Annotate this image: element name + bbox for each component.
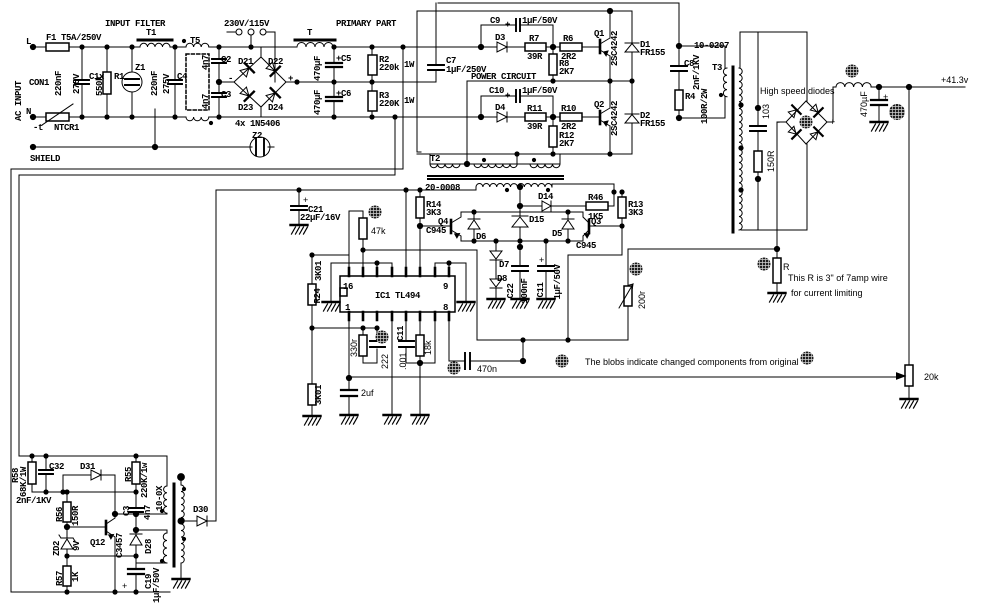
transformer T2 primary winding 3: [530, 164, 560, 168]
svg-text:200r: 200r: [637, 291, 647, 309]
svg-text:+C5: +C5: [336, 54, 351, 64]
capacitor C22: [519, 241, 521, 297]
svg-text:R6: R6: [563, 34, 573, 44]
svg-text:T1: T1: [146, 28, 157, 38]
diode D1: [625, 11, 639, 81]
wire emitter rail: [461, 240, 583, 242]
svg-text:470µF: 470µF: [313, 56, 323, 81]
svg-text:R24: R24: [313, 288, 323, 304]
svg-text:T5: T5: [190, 36, 200, 46]
svg-text:D14: D14: [538, 192, 554, 202]
svg-text:220K: 220K: [379, 99, 400, 109]
svg-text:D28: D28: [144, 539, 154, 554]
svg-text:D7: D7: [499, 260, 509, 270]
svg-text:.001: .001: [398, 352, 408, 370]
svg-text:C9: C9: [490, 16, 500, 26]
svg-text:1µF/50V: 1µF/50V: [553, 264, 563, 300]
resistor R11: [525, 113, 546, 121]
svg-text:Q1: Q1: [594, 29, 605, 39]
svg-text:230V/115V: 230V/115V: [224, 19, 270, 29]
svg-text:1µF/50V: 1µF/50V: [522, 86, 558, 96]
diode D28: [130, 514, 142, 556]
svg-text:4n7: 4n7: [143, 505, 153, 520]
diode D8: [495, 270, 497, 297]
wire D30 riser: [215, 190, 217, 521]
capacitor C1: [81, 47, 83, 117]
inductor T1: [140, 43, 170, 47]
capacitor C3 aux: [135, 492, 137, 514]
wire T2 secondary right: [552, 184, 614, 192]
resistor R46: [586, 202, 608, 210]
svg-text:3K3: 3K3: [628, 208, 643, 218]
transformer T primary: [297, 43, 333, 48]
capacitor 470n: [449, 320, 523, 361]
transformer T2 secondary winding: [476, 184, 552, 187]
svg-text:2K7: 2K7: [559, 67, 574, 77]
svg-text:39R: 39R: [527, 52, 543, 62]
node taps T3: [738, 102, 743, 192]
resistor R55: [135, 456, 137, 492]
wire shield: [33, 146, 250, 148]
wire mid rail: [286, 81, 436, 83]
zener ZD2: [59, 527, 75, 556]
svg-text:D31: D31: [80, 462, 96, 472]
svg-text:2uf: 2uf: [361, 388, 374, 398]
svg-text:Z1: Z1: [135, 63, 146, 73]
wire pin4 ground drop: [391, 320, 393, 413]
labels input parts: [54, 55, 231, 109]
resistor R13: [621, 192, 623, 226]
svg-text:R7: R7: [529, 34, 539, 44]
wire D31 drop: [114, 475, 116, 514]
resistor R24: [311, 255, 313, 328]
wire: [270, 146, 274, 148]
resistor 3K01 lower: [311, 328, 313, 414]
svg-text:D5: D5: [552, 229, 562, 239]
diode output bridge a: [787, 105, 801, 119]
svg-text:F1 T5A/250V: F1 T5A/250V: [46, 33, 102, 43]
capacitor C7: [435, 3, 437, 82]
diode D21: [239, 63, 254, 78]
resistor R6: [560, 43, 582, 51]
diode D22: [265, 61, 280, 76]
spark gap Z1: [131, 47, 133, 117]
transformer T2 primary winding 2: [474, 164, 517, 168]
svg-text:R11: R11: [527, 104, 543, 114]
svg-text:NTCR1: NTCR1: [54, 123, 80, 133]
svg-text:C11: C11: [536, 282, 546, 298]
diode D14: [542, 201, 551, 211]
svg-text:275V: 275V: [72, 73, 82, 94]
transformer T2 primary winding 1: [430, 164, 460, 168]
svg-text:Q3: Q3: [591, 217, 601, 227]
wire aux bottom rail: [11, 591, 170, 593]
svg-text:18k: 18k: [423, 340, 433, 355]
svg-text:-t: -t: [33, 123, 43, 133]
capacitor C5: [333, 47, 335, 82]
resistor R7: [525, 43, 546, 51]
transformer T2 core: [428, 176, 563, 179]
transformer T3 core: [732, 67, 735, 232]
capacitor C9: [481, 25, 553, 47]
svg-text:275V: 275V: [162, 73, 172, 94]
IC1 bottom pins: [349, 312, 449, 320]
svg-text:1K: 1K: [71, 571, 81, 582]
resistor R14: [419, 190, 421, 226]
capacitor C11: [545, 241, 547, 297]
transformer T5 top winding: [186, 43, 209, 47]
blob output cap: [889, 104, 905, 120]
blob note left: [556, 355, 569, 368]
svg-text:D8: D8: [497, 274, 507, 284]
wire shield stub: [154, 109, 156, 147]
svg-text:D3: D3: [495, 33, 505, 43]
wire vertical to T2 rail: [417, 11, 421, 152]
svg-text:+: +: [505, 91, 510, 101]
svg-text:SHIELD: SHIELD: [30, 154, 61, 164]
diode D23: [239, 86, 254, 101]
svg-text:2nF/1KV: 2nF/1KV: [16, 496, 52, 506]
diode D6: [468, 212, 480, 241]
svg-text:R: R: [783, 262, 790, 272]
svg-text:1µF/50V: 1µF/50V: [522, 16, 558, 26]
resistor R4: [675, 90, 683, 110]
svg-text:470µF: 470µF: [859, 91, 869, 117]
transformer T2 primary stubs: [430, 154, 560, 164]
transformer aux left winding 2: [163, 533, 167, 563]
wire secondary top loop: [740, 32, 807, 126]
svg-text:100R/2W: 100R/2W: [700, 88, 710, 124]
potentiometer 20k: [905, 365, 913, 386]
node SHIELD: [30, 144, 35, 149]
blob note right: [801, 352, 814, 365]
svg-text:Q2: Q2: [594, 100, 604, 110]
capacitor 222: [376, 328, 378, 341]
svg-text:+: +: [505, 20, 510, 30]
wire: [69, 116, 186, 118]
svg-text:C2: C2: [221, 55, 231, 65]
svg-text:C3457: C3457: [115, 533, 125, 558]
diode D24: [265, 88, 280, 103]
resistor R56: [66, 492, 68, 527]
wire mid bus: [467, 80, 632, 82]
switch 230V/115V: [227, 32, 275, 82]
wire 18k node: [406, 320, 435, 413]
transformer aux right winding: [181, 485, 184, 563]
transistor Q12: [105, 521, 108, 534]
wire: [209, 116, 261, 118]
node N terminal: [30, 114, 35, 119]
diode D15: [512, 206, 528, 241]
ground output cap: [871, 116, 888, 131]
resistor R8: [552, 47, 554, 81]
svg-text:R55: R55: [124, 467, 134, 482]
svg-text:1µF/250V: 1µF/250V: [446, 65, 487, 75]
svg-text:9V: 9V: [72, 540, 82, 551]
resistor 330r: [363, 328, 377, 363]
svg-text:R10: R10: [561, 104, 576, 114]
capacitor C6: [333, 82, 335, 117]
diode D5: [562, 212, 574, 241]
capacitor C19: [135, 556, 137, 592]
wire output down right: [908, 87, 910, 365]
capacitor C2: [218, 47, 220, 82]
svg-text:100nF: 100nF: [520, 278, 530, 303]
svg-text:T2: T2: [430, 154, 440, 164]
svg-text:470n: 470n: [477, 364, 497, 374]
wire pin16 rail: [312, 254, 349, 256]
wire top: [261, 46, 417, 48]
blob 47k: [369, 206, 382, 219]
wire to T3 primary: [679, 46, 725, 118]
transformer T5 bottom winding: [186, 117, 209, 121]
node centre tap aux: [178, 518, 184, 524]
svg-text:22µF/16V: 22µF/16V: [300, 213, 341, 223]
potentiometer 200r: [627, 249, 629, 340]
wire T2 top rail: [417, 153, 632, 155]
svg-text:+: +: [883, 92, 888, 102]
svg-text:8: 8: [443, 303, 448, 313]
svg-text:AC INPUT: AC INPUT: [14, 80, 24, 121]
ground D8: [488, 293, 505, 308]
capacitor 2uf: [348, 378, 350, 413]
bridge rectifier D21 D22 D23 D24: [234, 57, 286, 107]
svg-text:1W: 1W: [404, 96, 415, 106]
svg-text:47k: 47k: [371, 226, 386, 236]
transistor Q3: [588, 220, 591, 233]
node dots on N wire: [79, 114, 221, 119]
svg-text:4x 1N5406: 4x 1N5406: [235, 119, 280, 129]
svg-text:for current limiting: for current limiting: [791, 288, 863, 298]
resistor R3: [371, 82, 373, 117]
svg-text:C945: C945: [576, 241, 596, 251]
svg-text:FR155: FR155: [640, 119, 665, 129]
svg-text:330r: 330r: [349, 339, 359, 357]
svg-text:R4: R4: [685, 92, 696, 102]
svg-text:D23: D23: [238, 103, 253, 113]
wire feedback long: [349, 376, 897, 378]
wire aux top rail: [19, 456, 167, 486]
svg-text:20k: 20k: [924, 372, 939, 382]
svg-text:1µF/50V: 1µF/50V: [152, 567, 162, 603]
ground aux transformer: [173, 573, 190, 588]
wire pin11 riser: [419, 226, 421, 268]
svg-text:C22: C22: [506, 283, 516, 298]
diode D4: [497, 112, 507, 122]
wire bottom: [261, 116, 481, 118]
resistor R10: [560, 113, 582, 121]
fuse F1: [46, 43, 69, 51]
svg-text:2SC4242: 2SC4242: [610, 31, 620, 66]
IC1 TL494 body: [340, 276, 455, 312]
capacitor 470uF output: [878, 87, 880, 120]
svg-text:R57: R57: [55, 571, 65, 586]
svg-text:C945: C945: [426, 226, 446, 236]
svg-text:C10: C10: [489, 86, 504, 96]
diode D7: [495, 241, 497, 270]
svg-text:220nF: 220nF: [54, 71, 64, 96]
diode D2: [625, 81, 639, 154]
svg-text:10-0X: 10-0X: [155, 485, 165, 511]
diode output bridge d: [809, 127, 823, 141]
svg-text:2SC4242: 2SC4242: [610, 101, 620, 136]
transformer aux left winding 1: [164, 486, 167, 513]
svg-text:L: L: [26, 37, 31, 47]
svg-text:220k: 220k: [379, 63, 400, 73]
svg-text:16: 16: [343, 282, 353, 292]
capacitor C21: [298, 190, 300, 223]
capacitor C3: [218, 82, 220, 117]
blob 470n: [448, 362, 461, 375]
wire top bus: [417, 10, 632, 12]
wire current limit node: [628, 248, 777, 250]
svg-text:R1: R1: [114, 72, 125, 82]
svg-text:222: 222: [380, 354, 390, 369]
svg-text:IC1 TL494: IC1 TL494: [375, 291, 421, 301]
blob near R: [758, 258, 771, 271]
svg-text:4n7: 4n7: [201, 55, 211, 70]
wire aux node b: [115, 513, 167, 515]
wire outer frame left: [11, 47, 403, 592]
wire pin1 row: [312, 327, 377, 329]
svg-text:+: +: [122, 581, 127, 591]
svg-text:This R is 3" of 7amp wire: This R is 3" of 7amp wire: [788, 273, 888, 283]
wire: [209, 46, 261, 48]
diode output bridge c: [787, 125, 801, 139]
inductor output: [836, 83, 871, 87]
wire centre tap to D14: [520, 205, 542, 207]
svg-text:-: -: [228, 74, 233, 84]
svg-text:R56: R56: [55, 507, 65, 522]
wire outer top: [438, 2, 679, 4]
diode D30: [181, 516, 216, 526]
wire collector rail: [461, 211, 583, 213]
wire bridge minus down: [777, 122, 786, 249]
svg-text:D21: D21: [238, 57, 254, 67]
svg-text:INPUT FILTER: INPUT FILTER: [105, 19, 166, 29]
svg-text:550k: 550k: [95, 75, 105, 96]
ground pin16 side: [330, 263, 332, 300]
resistor R 7amp: [776, 249, 778, 291]
svg-text:The blobs indicate changed com: The blobs indicate changed components fr…: [585, 357, 799, 367]
svg-text:1W: 1W: [404, 60, 415, 70]
wire N: [33, 116, 46, 118]
svg-text:2K7: 2K7: [559, 139, 574, 149]
svg-text:3K01: 3K01: [314, 384, 324, 405]
svg-text:470µF: 470µF: [313, 90, 323, 115]
transistor Q2: [599, 111, 602, 124]
capacitor C4: [174, 47, 176, 117]
wire secondary bottom: [741, 144, 807, 230]
svg-text:D24: D24: [268, 103, 284, 113]
wire bridge plus up: [827, 87, 836, 122]
svg-text:20-0008: 20-0008: [425, 183, 460, 193]
capacitor .001: [405, 320, 407, 363]
bridge rectifier output: [786, 101, 827, 144]
svg-text:CON1: CON1: [29, 78, 50, 88]
resistor 47k: [359, 218, 367, 239]
capacitor C8: [678, 3, 680, 90]
section: input filter texts: [14, 19, 537, 164]
transformer aux core: [173, 484, 176, 566]
svg-text:150R: 150R: [71, 505, 81, 526]
resistor R12: [552, 117, 554, 154]
wire drive return: [466, 81, 468, 164]
svg-text:Q12: Q12: [90, 538, 105, 548]
resistor R1: [106, 47, 108, 117]
svg-text:4n7: 4n7: [201, 94, 211, 109]
resistor 18k: [419, 320, 421, 363]
svg-text:D22: D22: [268, 57, 283, 67]
svg-text:ZD2: ZD2: [52, 541, 62, 556]
node: [216, 79, 221, 84]
capacitor C32: [45, 456, 47, 492]
svg-text:220K/1w: 220K/1w: [140, 462, 150, 498]
node L terminal: [30, 44, 35, 49]
wire +41.3v rail: [871, 86, 965, 88]
wire aux node a: [32, 491, 136, 493]
svg-text:R46: R46: [588, 193, 603, 203]
wire block box: [363, 250, 628, 340]
thermistor NTCR1: [46, 113, 69, 121]
wire T2 secondary left to rail: [475, 187, 477, 190]
wire pin row upper: [331, 263, 466, 268]
svg-text:220nF: 220nF: [150, 71, 160, 96]
wire R13 to feedback drop: [568, 226, 622, 340]
svg-text:C11: C11: [396, 325, 406, 341]
svg-text:N: N: [26, 107, 31, 117]
wire: [69, 46, 140, 48]
svg-text:PRIMARY PART: PRIMARY PART: [336, 19, 397, 29]
wire: [170, 46, 186, 48]
svg-text:2nF/1KV: 2nF/1KV: [692, 54, 702, 90]
resistor 150R: [754, 151, 762, 172]
svg-text:High speed diodes: High speed diodes: [760, 86, 835, 96]
svg-text:9: 9: [443, 282, 448, 292]
svg-text:+: +: [303, 195, 308, 205]
svg-text:C4: C4: [177, 72, 188, 82]
node dots on L wire: [79, 44, 253, 49]
diode output bridge b: [809, 103, 823, 117]
wire base drive lower: [481, 116, 600, 118]
capacitor C10: [481, 96, 553, 117]
transformer T3 secondary winding: [739, 68, 742, 230]
svg-text:T3: T3: [712, 63, 722, 73]
resistor R57: [66, 556, 68, 592]
resistor R2: [371, 47, 373, 82]
svg-text:D30: D30: [193, 505, 208, 515]
svg-text:+: +: [539, 255, 544, 265]
svg-text:150R: 150R: [766, 150, 776, 172]
resistor R58: [31, 456, 33, 492]
svg-text:39R: 39R: [527, 122, 543, 132]
transistor Q1: [599, 40, 602, 53]
diode D3: [497, 42, 507, 52]
wire to bridge minus: [219, 81, 234, 83]
svg-text:C3: C3: [221, 90, 231, 100]
diode D31: [63, 470, 115, 492]
svg-text:+41.3v: +41.3v: [941, 75, 969, 85]
svg-text:103: 103: [761, 104, 771, 119]
svg-text:FR155: FR155: [640, 48, 665, 58]
capacitor 103: [757, 131, 759, 151]
wire ic top rail: [216, 189, 476, 191]
ground pin9 side: [465, 263, 467, 300]
svg-text:C32: C32: [49, 462, 64, 472]
wire pin12 riser: [405, 190, 407, 268]
spark gap Z2: [250, 137, 270, 157]
svg-text:D15: D15: [529, 215, 544, 225]
